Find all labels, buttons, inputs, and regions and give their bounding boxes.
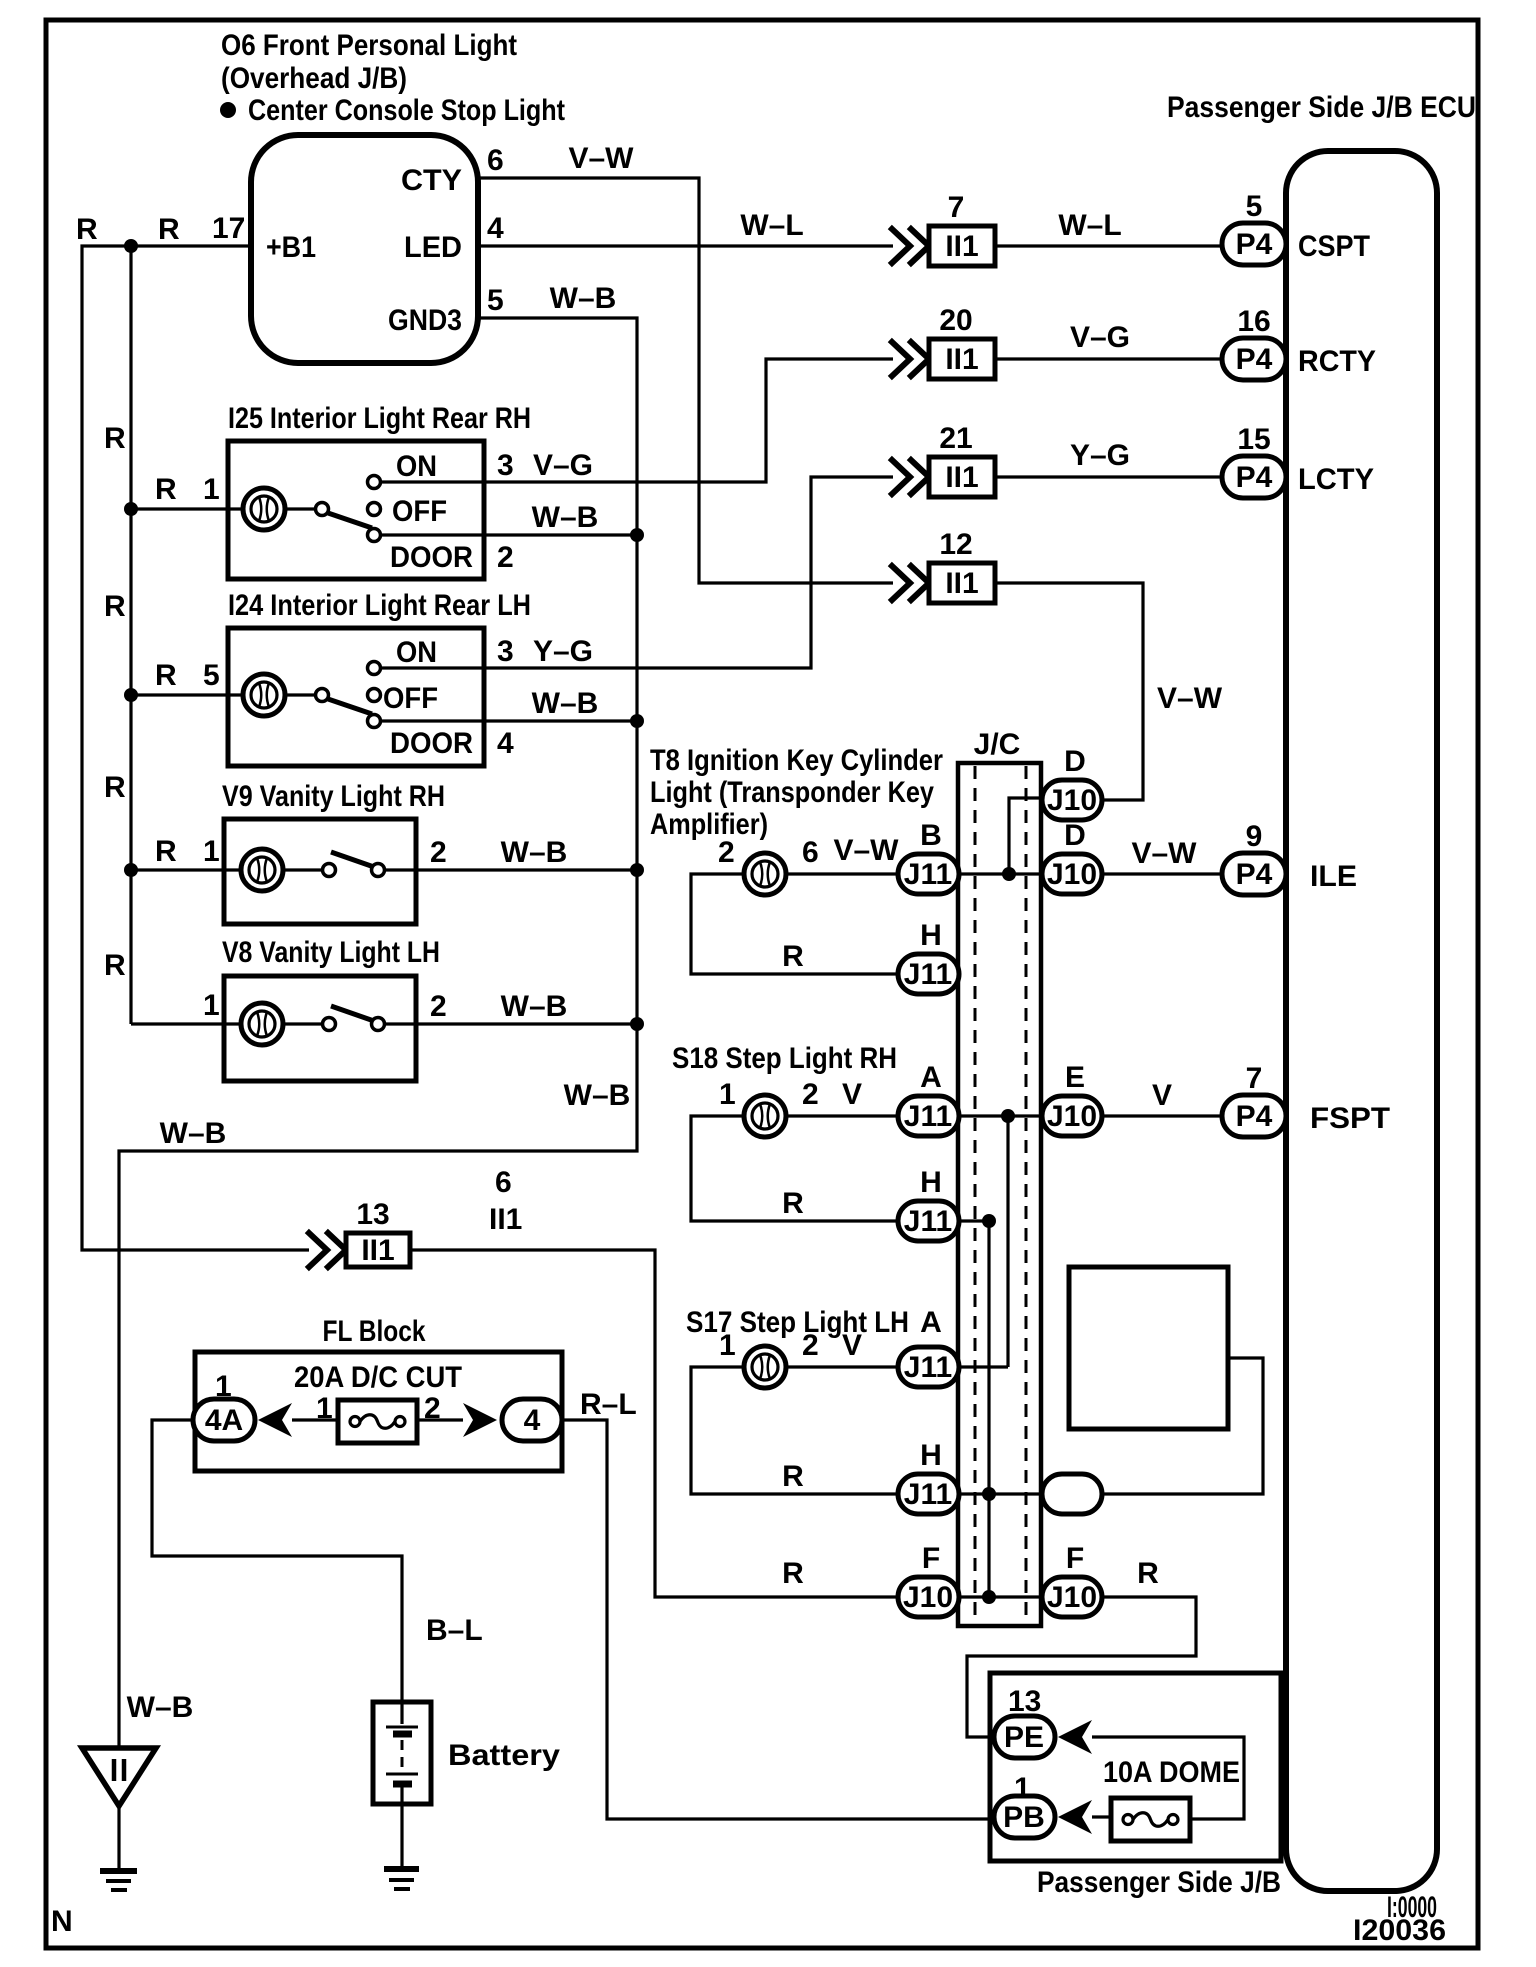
svg-text:J11: J11 <box>904 958 952 991</box>
node H label (S18) <box>920 1166 942 1199</box>
wire arrow to fuse <box>292 1418 338 1421</box>
svg-text:Light (Transponder Key: Light (Transponder Key <box>650 776 934 809</box>
svg-text:V: V <box>1152 1079 1172 1112</box>
wire W-B from I24 DOOR pin 4 <box>381 719 637 722</box>
wire R into I25 pin 1 <box>131 507 243 510</box>
svg-text:H: H <box>920 919 942 952</box>
bulb V8 <box>241 1003 283 1045</box>
svg-text:OFF: OFF <box>392 495 447 528</box>
label R (far left) <box>76 213 98 246</box>
wire V-G from I25 ON pin 3 to II1-20 <box>381 359 893 482</box>
ground (battery) <box>384 1869 419 1889</box>
svg-text:R: R <box>104 590 126 623</box>
connector J11 A (S18) <box>898 1096 959 1136</box>
svg-text:R: R <box>782 1187 804 1220</box>
svg-text:H: H <box>920 1439 942 1472</box>
svg-text:5: 5 <box>487 284 504 317</box>
node F label (left) <box>922 1542 940 1575</box>
svg-text:ON: ON <box>396 636 437 669</box>
svg-text:2: 2 <box>430 836 447 869</box>
svg-text:17: 17 <box>212 212 245 245</box>
wire V-W from T8 to J11-B <box>786 872 897 875</box>
label W-L (left) <box>740 209 803 242</box>
label I25 Interior Light Rear RH <box>228 402 531 435</box>
svg-text:9: 9 <box>1246 820 1263 853</box>
svg-text:1: 1 <box>719 1078 736 1111</box>
svg-text:W–B: W–B <box>501 836 568 869</box>
component FL Block box <box>195 1352 562 1471</box>
svg-text:Passenger Side J/B ECU: Passenger Side J/B ECU <box>1167 91 1476 124</box>
svg-text:V–W: V–W <box>1131 837 1197 870</box>
wire B-L battery to 4A <box>152 1420 402 1702</box>
svg-text:W–B: W–B <box>550 282 617 315</box>
svg-text:3: 3 <box>497 449 514 482</box>
pin 16 label (P4 RCTY) <box>1237 305 1270 338</box>
svg-text:15: 15 <box>1237 423 1270 456</box>
label O6 Front Personal Light title <box>220 29 565 127</box>
svg-text:W–B: W–B <box>501 990 568 1023</box>
svg-text:1: 1 <box>203 835 220 868</box>
pin 1 label (fuse) <box>316 1392 333 1425</box>
svg-text:2: 2 <box>802 1329 819 1362</box>
svg-text:J11: J11 <box>904 1100 952 1133</box>
svg-text:PB: PB <box>1003 1801 1045 1834</box>
connector PB <box>994 1796 1055 1838</box>
pin 2 label (I25) <box>497 541 514 574</box>
svg-text:OFF: OFF <box>383 682 438 715</box>
node LCTY <box>1298 463 1374 496</box>
label V8 Vanity Light LH <box>222 936 440 969</box>
svg-text:R: R <box>104 771 126 804</box>
svg-text:1: 1 <box>316 1392 333 1425</box>
connector II1 pin 12 <box>892 528 995 603</box>
svg-text:FL Block: FL Block <box>323 1315 426 1348</box>
connector P4 pin 9 <box>1222 853 1286 895</box>
pin 17 label (O6 +B1) <box>212 212 245 245</box>
svg-text:16: 16 <box>1237 305 1270 338</box>
svg-text:V8 Vanity Light LH: V8 Vanity Light LH <box>222 936 440 969</box>
connector P4 pin 7 <box>1222 1095 1286 1137</box>
arrow into PB <box>1058 1800 1092 1834</box>
svg-text:H: H <box>920 1166 942 1199</box>
node ILE <box>1310 860 1357 893</box>
wire V-G from II1-20 to P4-16 <box>995 357 1222 360</box>
label V-W (CTY) <box>568 142 634 175</box>
label W-B (I25 DOOR) <box>532 501 599 534</box>
label R (near +B1) <box>158 213 180 246</box>
label V (FSPT) <box>1152 1079 1172 1112</box>
svg-text:W–B: W–B <box>532 687 599 720</box>
switch I25 <box>285 476 381 542</box>
label R (I24) <box>155 659 177 692</box>
wire R from II1-13 to J10-F <box>410 1250 897 1597</box>
connector J11 H (S18) <box>898 1201 959 1241</box>
label V-W (ILE) <box>1131 837 1197 870</box>
svg-text:D: D <box>1064 745 1086 778</box>
label R (T8 return) <box>782 940 804 973</box>
wire R return from S17 to J11-H <box>691 1367 897 1494</box>
pin 2 label (V9) <box>430 836 447 869</box>
pin 1 label (I25) <box>203 473 220 506</box>
wire R feed: II1-13 up left side to +B1 pin 17 <box>82 246 309 1250</box>
wire R bus inside J/C <box>987 1221 990 1597</box>
svg-text:(Overhead J/B): (Overhead J/B) <box>221 62 407 95</box>
svg-text:I24 Interior Light Rear LH: I24 Interior Light Rear LH <box>228 589 531 622</box>
connector II1 pin 13 <box>309 1198 410 1267</box>
pin 3 label (I25) <box>497 449 514 482</box>
svg-text:R: R <box>782 1557 804 1590</box>
label R (to J10-F) <box>782 1557 804 1590</box>
wire V from J10-E to P4-7 <box>1102 1114 1222 1117</box>
wire V from S18 to J11-A <box>786 1114 897 1117</box>
svg-text:+B1: +B1 <box>266 231 316 264</box>
svg-text:10A DOME: 10A DOME <box>1103 1756 1240 1789</box>
label R-L <box>580 1388 637 1421</box>
component O6 front personal light (overhead J/B) box <box>251 135 478 363</box>
svg-text:R: R <box>782 1460 804 1493</box>
junction R feed branch <box>124 239 138 253</box>
svg-text:P4: P4 <box>1236 858 1273 891</box>
wire V-W from II1-12 down to J10-D <box>995 583 1143 800</box>
node D label (upper) <box>1064 745 1086 778</box>
junction W-B at V8 <box>630 1017 644 1031</box>
svg-text:GND3: GND3 <box>388 304 462 337</box>
wire V-W branch up to J10-D top <box>1009 798 1043 874</box>
switch V9 <box>283 852 385 877</box>
svg-text:20A D/C CUT: 20A D/C CUT <box>294 1361 462 1394</box>
label R (S18 return) <box>782 1187 804 1220</box>
wire V from S17 to J11-A <box>786 1365 897 1368</box>
wire Y-G from II1-21 to P4-15 <box>995 475 1222 478</box>
ground (left) <box>100 1871 137 1890</box>
wire PE to fuse riser <box>1092 1737 1244 1819</box>
connector II1 pin 20 <box>892 304 995 379</box>
switch V8 <box>283 1006 385 1031</box>
component Passenger Side J/B box <box>990 1673 1281 1861</box>
label V (S17) <box>842 1329 862 1362</box>
node D label (ILE row) <box>1064 819 1086 852</box>
bulb I25 <box>243 488 285 530</box>
svg-text:4: 4 <box>524 1404 541 1437</box>
svg-text:FSPT: FSPT <box>1310 1102 1390 1135</box>
connector II1 pin 21 <box>892 422 995 497</box>
connector J10 F (right) <box>1042 1577 1102 1617</box>
connector J11 H (T8) <box>898 954 959 994</box>
svg-text:P4: P4 <box>1236 343 1273 376</box>
pin 1 label (V9) <box>203 835 220 868</box>
svg-text:J10: J10 <box>1047 1581 1097 1614</box>
label S17 Step Light LH <box>686 1306 909 1339</box>
svg-text:2: 2 <box>718 836 735 869</box>
pin 9 label (P4 ILE) <box>1246 820 1263 853</box>
wire J11-H across J/C to spare oval <box>958 1492 1043 1495</box>
svg-text:DOOR: DOOR <box>390 541 473 574</box>
svg-text:J/C: J/C <box>974 728 1021 761</box>
label Battery <box>448 1739 560 1772</box>
svg-text:S18 Step Light RH: S18 Step Light RH <box>672 1042 897 1075</box>
fuse 10A DOME <box>1111 1798 1190 1841</box>
pin 1 label (S17) <box>719 1329 736 1362</box>
svg-text:V–W: V–W <box>568 142 634 175</box>
wire across J/C to J10-D <box>958 872 1043 875</box>
svg-text:1: 1 <box>203 473 220 506</box>
svg-text:W–B: W–B <box>160 1117 227 1150</box>
node FSPT <box>1310 1102 1390 1135</box>
wire R branch down to lights <box>129 246 132 1024</box>
label V (S18) <box>842 1078 862 1111</box>
svg-text:O6 Front Personal Light: O6 Front Personal Light <box>221 29 517 62</box>
wire across J/C joins V branch <box>958 1365 1008 1368</box>
arrow into PE <box>1058 1720 1092 1754</box>
component I24 box <box>228 628 484 766</box>
svg-text:W–L: W–L <box>1058 209 1121 242</box>
junction R at V9 <box>124 863 138 877</box>
svg-text:V–G: V–G <box>533 449 593 482</box>
connector P4 pin 15 <box>1222 456 1286 498</box>
pin 1 label (S18) <box>719 1078 736 1111</box>
svg-text:I25 Interior Light Rear RH: I25 Interior Light Rear RH <box>228 402 531 435</box>
svg-text:A: A <box>920 1061 942 1094</box>
wire R into V8 pin 1 <box>131 1022 241 1025</box>
label V9 Vanity Light RH <box>222 780 445 813</box>
connector 4 <box>502 1399 562 1441</box>
connector J10 E <box>1042 1096 1102 1136</box>
pin 2 label (T8) <box>718 836 735 869</box>
label 10A DOME <box>1103 1756 1240 1789</box>
switch I24 <box>285 662 381 728</box>
svg-text:A: A <box>920 1306 942 1339</box>
wire R return from T8 to J11-H <box>691 874 897 974</box>
node RCTY <box>1298 345 1376 378</box>
svg-text:F: F <box>1066 1542 1084 1575</box>
svg-text:V–W: V–W <box>833 834 899 867</box>
svg-text:R: R <box>104 949 126 982</box>
pin 2 label (fuse) <box>424 1392 441 1425</box>
label R (V9) <box>155 835 177 868</box>
junction R bus at S17 <box>982 1487 996 1501</box>
svg-text:R: R <box>155 659 177 692</box>
svg-text:II1: II1 <box>361 1234 394 1267</box>
svg-text:LCTY: LCTY <box>1298 463 1374 496</box>
wire R into I24 pin 5 <box>131 693 243 696</box>
label Passenger Side J/B ECU <box>1167 91 1476 124</box>
label 20A D/C CUT <box>294 1361 462 1394</box>
svg-text:4: 4 <box>497 727 514 760</box>
svg-text:II1: II1 <box>945 461 978 494</box>
bulb I24 <box>243 674 285 716</box>
node H label (T8) <box>920 919 942 952</box>
label W-B (at ground) <box>127 1691 194 1724</box>
pin 5 label (I24) <box>203 659 220 692</box>
svg-text:2: 2 <box>497 541 514 574</box>
svg-text:13: 13 <box>1008 1685 1041 1718</box>
wire Y-G from I24 ON pin 3 to II1-21 <box>381 477 893 668</box>
svg-text:W–B: W–B <box>127 1691 194 1724</box>
junction R bus bottom <box>982 1590 996 1604</box>
svg-text:N: N <box>51 1905 73 1938</box>
svg-text:12: 12 <box>939 528 972 561</box>
svg-text:PE: PE <box>1004 1721 1044 1754</box>
wire R return from S18 to J11-H <box>691 1116 897 1221</box>
bulb S18 step light RH <box>744 1095 786 1137</box>
svg-text:J11: J11 <box>904 1351 952 1384</box>
svg-text:2: 2 <box>430 990 447 1023</box>
wire W-B from V8 pin 2 <box>384 1022 637 1025</box>
svg-text:J10: J10 <box>1047 1100 1097 1133</box>
component V9 box <box>224 819 416 924</box>
svg-text:4: 4 <box>487 212 504 245</box>
wire W-B from V9 pin 2 <box>384 868 637 871</box>
label V-W (vertical run) <box>1157 682 1223 715</box>
svg-text:CSPT: CSPT <box>1298 230 1370 263</box>
label W-B (above V8 return) <box>564 1079 631 1112</box>
bulb V9 <box>241 849 283 891</box>
label V-G (right) <box>1070 321 1130 354</box>
connector spare oval <box>1042 1474 1102 1514</box>
component I25 box <box>228 441 484 579</box>
node F label (right) <box>1066 1542 1084 1575</box>
label W-B (GND3) <box>550 282 617 315</box>
fuse 20A D/C CUT <box>338 1400 417 1443</box>
junction R at I25 <box>124 502 138 516</box>
junction V inside J/C <box>1001 1109 1015 1123</box>
svg-text:ON: ON <box>396 450 437 483</box>
svg-text:J10: J10 <box>903 1581 953 1614</box>
wire across J/C to J10-E <box>958 1114 1043 1117</box>
svg-text:II1: II1 <box>945 230 978 263</box>
label W-B (horizontal run) <box>160 1117 227 1150</box>
pin 2 label (S17) <box>802 1329 819 1362</box>
label R (I25) <box>155 473 177 506</box>
svg-text:R: R <box>155 473 177 506</box>
connector P4 pin 5 <box>1222 223 1286 265</box>
svg-text:Center Console Stop Light: Center Console Stop Light <box>248 94 565 127</box>
battery <box>373 1702 431 1867</box>
wire R into V9 pin 1 <box>131 868 241 871</box>
node E label <box>1065 1061 1085 1094</box>
component V8 box <box>224 976 416 1081</box>
wire R from J10-F to PE <box>967 1597 1196 1737</box>
svg-text:B–L: B–L <box>426 1614 483 1647</box>
junction W-B at I24 <box>630 714 644 728</box>
junction connector J/C bus <box>958 763 1041 1626</box>
wire V-W from J10-D to P4-9 <box>1102 872 1222 875</box>
svg-text:R: R <box>104 422 126 455</box>
svg-text:Amplifier): Amplifier) <box>650 808 768 841</box>
label T8 Ignition Key Cylinder Light (Transponder Key Amplifier) <box>650 744 943 841</box>
svg-text:Y–G: Y–G <box>1070 439 1130 472</box>
pin 1 label (4A) <box>215 1370 232 1403</box>
node CSPT <box>1298 230 1370 263</box>
svg-text:P4: P4 <box>1236 228 1273 261</box>
svg-text:V–W: V–W <box>1157 682 1223 715</box>
svg-text:R: R <box>76 213 98 246</box>
pin 1 label (V8) <box>203 989 220 1022</box>
label B-L <box>426 1614 483 1647</box>
junction W-B at V9 <box>630 863 644 877</box>
drawing number I20000 <box>1387 1891 1437 1924</box>
label R (S17 return) <box>782 1460 804 1493</box>
label Y-G (I24 ON) <box>533 635 593 668</box>
pin 3 label (I24) <box>497 635 514 668</box>
svg-text:V–G: V–G <box>1070 321 1130 354</box>
svg-text:T8 Ignition Key Cylinder: T8 Ignition Key Cylinder <box>650 744 943 777</box>
pin 6 label (O6 CTY) <box>487 144 504 177</box>
svg-text:7: 7 <box>948 191 965 224</box>
svg-text:RCTY: RCTY <box>1298 345 1376 378</box>
junction V-W inside J/C <box>1002 867 1016 881</box>
label W-B (V8) <box>501 990 568 1023</box>
node A label (S17) <box>920 1306 942 1339</box>
svg-text:P4: P4 <box>1236 1100 1273 1133</box>
svg-text:R: R <box>158 213 180 246</box>
sheet letter N <box>51 1905 73 1938</box>
wire W-L from II1-7 to P4-5 <box>995 244 1222 247</box>
pin 2 label (V8) <box>430 990 447 1023</box>
label R above I24 <box>104 590 126 623</box>
wire across J/C F row <box>958 1595 1043 1598</box>
label S18 Step Light RH <box>672 1042 897 1075</box>
label R above V8 <box>104 949 126 982</box>
svg-text:B: B <box>920 819 942 852</box>
label II1 destination <box>489 1203 522 1236</box>
junction R bus top <box>982 1214 996 1228</box>
label V-G (I25 ON) <box>533 449 593 482</box>
connector J11 H (S17) <box>898 1474 959 1514</box>
label Y-G (right) <box>1070 439 1130 472</box>
label R above I25 <box>104 422 126 455</box>
svg-text:Passenger Side J/B: Passenger Side J/B <box>1037 1866 1281 1899</box>
label Passenger Side J/B <box>1037 1866 1281 1899</box>
bulb S17 step light LH <box>744 1346 786 1388</box>
connector J11 B <box>898 854 959 894</box>
svg-text:V: V <box>842 1329 862 1362</box>
arrow into 4A <box>258 1403 292 1437</box>
label I24 Interior Light Rear LH <box>228 589 531 622</box>
bulb T8 ignition key cylinder light <box>744 853 786 895</box>
label J/C <box>974 728 1021 761</box>
junction R at I24 <box>124 688 138 702</box>
svg-text:DOOR: DOOR <box>390 727 473 760</box>
wire PB to fuse <box>1092 1815 1111 1818</box>
svg-text:W–L: W–L <box>740 209 803 242</box>
svg-text:ILE: ILE <box>1310 860 1357 893</box>
label FL Block <box>323 1315 426 1348</box>
svg-text:II1: II1 <box>945 343 978 376</box>
wire W-L from LED pin 4 to II1-7 <box>478 244 893 247</box>
svg-text:I20036: I20036 <box>1353 1914 1446 1947</box>
pin 5 label (O6 GND3) <box>487 284 504 317</box>
label W-B (I24 DOOR) <box>532 687 599 720</box>
svg-text:J10: J10 <box>1047 858 1097 891</box>
arrow into 4 <box>463 1403 497 1437</box>
svg-text:II1: II1 <box>489 1203 522 1236</box>
svg-text:R: R <box>1137 1557 1159 1590</box>
wire fuse to arrow <box>417 1418 463 1421</box>
wire R-L from 4 to PB <box>562 1420 995 1819</box>
svg-text:V: V <box>842 1078 862 1111</box>
svg-text:5: 5 <box>1246 190 1263 223</box>
svg-text:6: 6 <box>802 836 819 869</box>
label R above V9 <box>104 771 126 804</box>
pin 15 label (P4 LCTY) <box>1237 423 1270 456</box>
svg-text:20: 20 <box>939 304 972 337</box>
svg-text:R: R <box>155 835 177 868</box>
svg-text:R–L: R–L <box>580 1388 637 1421</box>
pin 2 label (S18) <box>802 1078 819 1111</box>
pin 5 label (P4 CSPT) <box>1246 190 1263 223</box>
pin 7 label (P4 FSPT) <box>1246 1062 1263 1095</box>
